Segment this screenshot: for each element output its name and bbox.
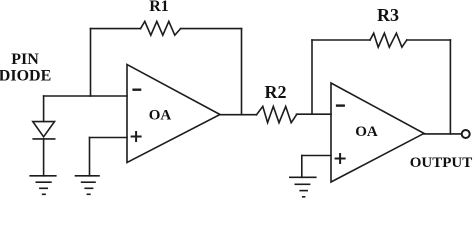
wire: R1 feedback top-right horizontal [181, 28, 242, 30]
svg-text:DIODE: DIODE [0, 67, 51, 84]
diode D1 (PIN diode) [33, 122, 55, 139]
wire: non-inverting input wire of second op-amp [302, 155, 331, 157]
svg-text:OA: OA [355, 124, 378, 140]
node: inverting input wire of first op-amp [44, 95, 127, 97]
wire: diode anode vertical [43, 96, 45, 122]
wire: R3 feedback top-left horizontal [312, 39, 370, 41]
output terminal [462, 130, 470, 138]
svg-text:OUTPUT: OUTPUT [410, 155, 473, 171]
resistor R3 [370, 33, 407, 47]
svg-text:R1: R1 [149, 0, 169, 15]
label PIN DIODE [0, 51, 51, 85]
wire: second op-amp non-inverting input to ground [301, 156, 303, 178]
wire: R3 feedback top-right horizontal [407, 39, 451, 41]
ground (below PIN diode) [30, 176, 56, 195]
op-amp U2 [331, 83, 424, 182]
wire: R3 feedback left vertical [311, 40, 313, 114]
wire: non-inverting input to ground [89, 138, 91, 176]
wire: R1 feedback top-left horizontal [91, 28, 141, 30]
wire: non-inverting input wire of first op-amp [90, 137, 128, 139]
resistor R2 [257, 106, 297, 122]
op-amp U1 [127, 65, 220, 163]
svg-text:R2: R2 [265, 82, 287, 102]
ground (below second op-amp non-inverting input) [290, 177, 316, 197]
wire: R2 to second op-amp inverting input [297, 113, 332, 115]
svg-text:OA: OA [149, 107, 172, 123]
ground (below first op-amp non-inverting input) [76, 176, 100, 195]
svg-text:R3: R3 [377, 5, 399, 25]
wire: second op-amp output [424, 133, 461, 135]
resistor R1 [141, 21, 181, 35]
svg-text:PIN: PIN [11, 51, 39, 68]
wire: R1 feedback left vertical [90, 29, 92, 96]
wire: R3 feedback right vertical to output [449, 40, 451, 134]
wire: R1 feedback right vertical to op-amp output [241, 29, 243, 115]
wire: diode cathode to ground [43, 139, 45, 176]
wire: first op-amp output [220, 114, 257, 116]
